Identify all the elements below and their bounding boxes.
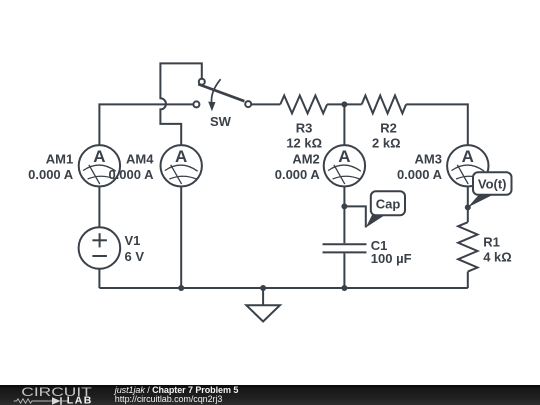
wire: ground stub — [262, 288, 264, 305]
node: ground junction — [260, 285, 266, 291]
voltage source V1 — [79, 227, 121, 269]
node: Vo(t) junction — [465, 204, 471, 210]
wire: AM2 bottom to C1 — [343, 187, 345, 244]
label R1 — [483, 234, 512, 264]
ammeter AM3 — [447, 145, 488, 186]
svg-text:V1: V1 — [125, 233, 141, 248]
logo diode — [48, 397, 68, 405]
ammeter AM1 — [79, 145, 120, 186]
svg-text:http://circuitlab.com/cqn2rj3: http://circuitlab.com/cqn2rj3 — [115, 394, 223, 404]
svg-text:12 kΩ: 12 kΩ — [286, 136, 322, 151]
flag Vo(t) — [468, 172, 512, 207]
resistor R2 — [362, 96, 406, 114]
label AM3 — [397, 152, 443, 182]
svg-text:Cap: Cap — [376, 197, 401, 212]
resistor R3 — [280, 96, 327, 114]
ammeter AM2 — [324, 145, 365, 186]
ground — [246, 305, 280, 321]
svg-text:2 kΩ: 2 kΩ — [372, 136, 401, 151]
svg-text:R1: R1 — [483, 234, 500, 249]
node: C1/bottom rail junction — [341, 285, 347, 291]
wire: bottom rail — [99, 287, 467, 289]
node: R3/R2/AM2 junction — [341, 101, 347, 107]
svg-text:Vo(t): Vo(t) — [478, 176, 507, 191]
C1 bottom plate — [323, 251, 367, 253]
svg-text:SW: SW — [210, 114, 232, 129]
svg-text:R3: R3 — [296, 121, 313, 136]
svg-text:AM4: AM4 — [126, 152, 154, 167]
ammeter AM4 — [161, 145, 202, 186]
wire: R2 to AM3 top — [406, 104, 468, 145]
svg-text:AM2: AM2 — [292, 152, 319, 167]
switch actuation arrow — [211, 79, 220, 102]
svg-text:AM1: AM1 — [46, 152, 73, 167]
wire: node to AM2 top — [343, 104, 345, 145]
svg-text:A: A — [338, 147, 350, 166]
svg-text:A: A — [93, 147, 105, 166]
svg-text:0.000 A: 0.000 A — [28, 167, 74, 182]
switch terminal: common — [245, 101, 251, 107]
switch lever — [198, 84, 244, 101]
wire: V1 bottom to bottom rail — [98, 269, 100, 288]
wire: AM1 top to switch throw — [99, 104, 193, 145]
svg-text:A: A — [175, 147, 187, 166]
svg-text:A: A — [462, 147, 474, 166]
label AM1 — [28, 152, 74, 182]
node: Cap flag junction — [341, 203, 347, 209]
wire: R1 bottom to bottom rail — [467, 272, 469, 288]
switch terminal: throw 2 (open) — [193, 101, 199, 107]
label AM2 — [275, 152, 321, 182]
C1 top plate — [323, 243, 367, 245]
node: AM4/bottom rail junction — [178, 285, 184, 291]
resistor R1 — [458, 222, 477, 271]
label C1 — [371, 238, 412, 266]
label R2 — [372, 121, 401, 151]
wire: AM4 bottom to bottom rail — [180, 187, 182, 289]
label V1 — [125, 233, 145, 264]
svg-text:100 µF: 100 µF — [371, 251, 412, 266]
wire: AM1 bottom to V1 top — [98, 187, 100, 228]
svg-text:AM3: AM3 — [415, 152, 442, 167]
svg-text:6 V: 6 V — [125, 249, 145, 264]
svg-text:0.000 A: 0.000 A — [108, 167, 154, 182]
wire: Cap flag stub — [344, 206, 365, 227]
switch SW — [193, 79, 251, 129]
flag Cap — [366, 191, 405, 227]
svg-text:0.000 A: 0.000 A — [397, 167, 443, 182]
wire: AM4 loop to switch top terminal (with hop) — [160, 63, 201, 145]
logo resistor zigzag — [14, 399, 48, 403]
switch terminal: throw 1 — [199, 79, 205, 85]
capacitor C1 — [323, 244, 367, 252]
wire: AM3 bottom to R1 — [467, 187, 469, 223]
wire: switch common to R3 — [251, 103, 280, 105]
svg-text:4 kΩ: 4 kΩ — [483, 250, 512, 265]
wire: R3 to node — [327, 103, 362, 105]
V1 plus sign — [92, 239, 107, 241]
svg-text:0.000 A: 0.000 A — [275, 167, 321, 182]
wire: C1 bottom to bottom rail — [343, 253, 345, 288]
svg-text:LAB: LAB — [67, 395, 93, 405]
svg-text:R2: R2 — [380, 121, 397, 136]
V1 minus sign — [92, 255, 107, 257]
label R3 — [286, 121, 322, 151]
label AM4 — [108, 152, 154, 182]
